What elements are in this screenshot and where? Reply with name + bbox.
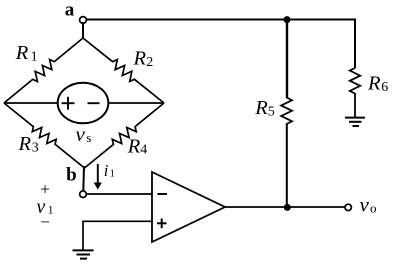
junction node top (R5 tap) [284,16,291,23]
ground below R6 [345,117,365,119]
wire op-amp noninverting input to ground [83,221,152,250]
current i1 arrow [97,164,99,184]
resistor R6 [350,68,360,94]
svg-text:−: − [40,213,50,232]
resistor R2 [83,38,164,103]
svg-text:b: b [66,165,77,186]
wire op-amp output to vo terminal [225,206,345,208]
resistor R5 [281,98,292,125]
minus mark in source [88,102,100,104]
svg-text:1: 1 [31,49,38,64]
voltage source vs [58,83,109,124]
svg-text:o: o [370,200,377,215]
svg-text:+: + [40,179,50,198]
svg-text:4: 4 [140,143,147,158]
svg-text:6: 6 [381,80,388,95]
svg-text:v: v [360,193,370,217]
svg-text:R: R [127,136,141,158]
svg-text:3: 3 [32,140,39,155]
svg-text:R: R [18,133,32,155]
svg-text:R: R [15,42,29,64]
node a terminal circle [80,17,87,24]
svg-text:R: R [254,97,268,119]
wire bridge bottom apex to node b [82,166,85,192]
op-amp U1 [152,172,225,242]
resistor R5 lead top [286,20,288,99]
junction node output [284,204,291,211]
svg-text:2: 2 [146,55,153,70]
wire top rail from node a to R6 branch [87,20,356,69]
vo terminal circle [345,204,351,210]
resistor R3 [4,103,85,168]
svg-text:5: 5 [268,104,275,119]
resistor R1 [4,38,83,103]
resistor R5 lead bottom [286,124,288,208]
svg-text:i: i [104,161,109,180]
resistor R4 [85,103,165,168]
wire node a to bridge apex [82,22,84,38]
ground below op-amp [73,249,94,251]
svg-text:v: v [76,122,86,146]
resistor R6 lead bottom [354,93,356,117]
svg-text:R: R [367,73,381,95]
op-amp noninverting input mark [157,222,167,224]
plus mark in source [62,102,75,104]
svg-text:1: 1 [110,169,115,180]
node b terminal circle [80,191,87,198]
wire bridge horizontal through source [4,102,164,104]
svg-text:a: a [65,0,75,20]
svg-text:R: R [133,47,147,69]
svg-text:s: s [86,130,91,145]
wire node b to op-amp inverting input [86,193,152,195]
op-amp inverting input mark [158,193,168,195]
